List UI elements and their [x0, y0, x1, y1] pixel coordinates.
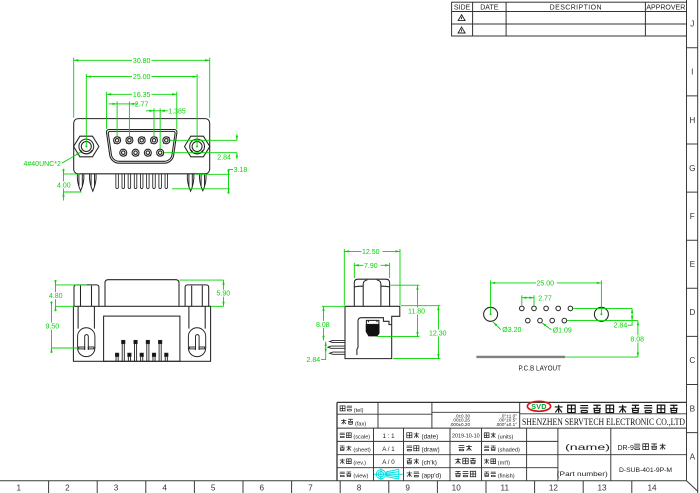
label 单位: [484, 433, 489, 438]
svg-text:30.80: 30.80: [133, 58, 151, 65]
svg-text:14: 14: [647, 484, 657, 493]
mounting hole right: [594, 307, 608, 321]
svg-text:J: J: [690, 20, 694, 29]
side view body with flange step: [345, 306, 400, 358]
svg-text:C: C: [689, 356, 695, 365]
revision triangle 1: [458, 15, 465, 33]
svg-text:APPROVER: APPROVER: [646, 4, 685, 11]
dim 25.00 (pcb): [490, 280, 492, 314]
green dots at nut centers: [85, 146, 198, 148]
dim 2.84 (pcb): [573, 307, 632, 309]
svg-text:H: H: [689, 116, 695, 125]
dim 2.84 (side): [325, 342, 327, 354]
svg-text:1 : 1: 1 : 1: [382, 433, 395, 440]
svg-text:P.C.B LAYOUT: P.C.B LAYOUT: [519, 364, 562, 373]
label 审核: [407, 459, 412, 464]
svg-text:4.80: 4.80: [49, 293, 63, 300]
svg-text:SVD: SVD: [531, 402, 546, 411]
svg-text:10: 10: [452, 484, 462, 493]
svg-text:B: B: [690, 404, 696, 413]
svg-text:4.00: 4.00: [57, 182, 71, 189]
bottom inner border line: [0, 480, 687, 482]
bottom zone numbers: [17, 484, 657, 493]
socket contacts top row (pins 1-5): [114, 137, 170, 144]
dim 5.90: [180, 279, 224, 281]
svg-text:7: 7: [308, 484, 313, 493]
mounting hole left: [484, 307, 498, 321]
third angle projection symbol (cyan): [374, 468, 403, 480]
svg-text:(date): (date): [422, 433, 439, 440]
label 处理: [484, 472, 489, 477]
part name DR-9 + 母座卧式: [618, 444, 666, 453]
svg-text:2.84: 2.84: [614, 322, 628, 329]
(name) and part number: [557, 442, 672, 478]
dim 2.77 (pcb): [521, 295, 523, 306]
right outer border line: [697, 0, 699, 493]
dim text 12.50: [362, 248, 383, 256]
svg-text:(units): (units): [498, 435, 514, 441]
svg-text:(Part number): (Part number): [557, 471, 608, 478]
revision triangle 2: [458, 27, 465, 33]
pin holes bottom row: [526, 318, 531, 323]
label 比例: [340, 433, 345, 438]
dim text 4.80: [48, 292, 65, 300]
svg-text:6: 6: [260, 484, 265, 493]
svg-text:SIDE: SIDE: [454, 4, 471, 11]
PCB layout dimensions: [491, 280, 638, 357]
svg-text:3.18: 3.18: [234, 167, 248, 174]
svg-text:E: E: [690, 260, 696, 269]
svg-text:2.84: 2.84: [307, 357, 321, 364]
svg-text:(fax): (fax): [355, 421, 366, 427]
title block texts: [340, 406, 496, 477]
PCB edge thick line: [476, 356, 565, 358]
dim 12.30: [401, 305, 440, 307]
label 传真 (fax): [341, 419, 346, 424]
label 页次: [340, 446, 345, 451]
label 版次: [340, 459, 345, 464]
svg-text:A: A: [690, 452, 696, 461]
svg-text:(finish): (finish): [498, 474, 515, 480]
svg-text:12.30: 12.30: [429, 331, 447, 338]
front view body outline: [74, 119, 210, 174]
thread callout leader 4#40UNC*2: [62, 152, 81, 163]
svg-text:16.35: 16.35: [133, 92, 151, 99]
svg-text:I: I: [691, 68, 693, 77]
contact notch dots top row: [114, 137, 170, 144]
svg-text:SHENZHEN SERVTECH ELECTRONIC C: SHENZHEN SERVTECH ELECTRONIC CO.,LTD: [522, 417, 685, 427]
dim 1.385: [153, 108, 155, 136]
svg-text:5.90: 5.90: [216, 291, 230, 298]
socket contacts bottom row (pins 6-9): [120, 149, 164, 156]
label 核准: [407, 471, 412, 477]
top view D-shell bulge: [105, 280, 179, 307]
front view dimension texts: [24, 57, 248, 190]
svg-text:F: F: [690, 212, 695, 221]
title block values: [382, 433, 479, 466]
label 电话 (tel): [340, 406, 345, 411]
name 刘建国: [455, 458, 461, 464]
svg-text:DR-9: DR-9: [618, 445, 634, 452]
label 日期: [407, 433, 412, 438]
dim 8.08 (pcb): [637, 321, 639, 358]
row lines top section: [337, 412, 687, 414]
svg-text:A / 0: A / 0: [382, 459, 395, 466]
dim text 8.08 (pcb): [630, 336, 647, 344]
svg-text:11.80: 11.80: [408, 309, 425, 316]
top view dimensions: [52, 280, 224, 353]
column lines top section: [378, 402, 520, 428]
left hex nut 4#40UNC: [74, 136, 99, 157]
svg-text:D: D: [689, 308, 695, 317]
bottom zone tick marks: [49, 481, 632, 493]
nine solder tail pins below body: [116, 174, 168, 189]
dim 30.80: [73, 58, 75, 118]
dim 8.08 (side): [322, 305, 345, 307]
leader dia 1.09: [542, 323, 551, 330]
left board-lock clip: [78, 328, 95, 357]
dim 4.00: [64, 173, 80, 175]
svg-text:DATE: DATE: [480, 4, 498, 11]
label 视图: [340, 472, 345, 477]
dim 9.50: [51, 306, 53, 348]
svg-text:(scale): (scale): [353, 435, 370, 441]
rear pin row (4 pins, squares + long tails): [122, 340, 162, 361]
right screw post: [185, 285, 209, 306]
svg-text:2019-10-10: 2019-10-10: [452, 434, 480, 440]
dim text 25.00: [132, 73, 152, 81]
svg-text:Ø3.20: Ø3.20: [502, 327, 521, 334]
dim 16.35: [106, 92, 108, 129]
svg-text:2.77: 2.77: [135, 101, 149, 108]
right zone tick marks: [687, 48, 698, 433]
svg-text:25.00: 25.00: [133, 74, 151, 81]
svg-text:9: 9: [405, 484, 410, 493]
svg-text:7.90: 7.90: [364, 263, 378, 270]
svg-text:(rev.): (rev.): [353, 461, 366, 467]
label 绘图: [407, 446, 413, 451]
company name Chinese 深圳市实维得电子有限公司: [555, 405, 678, 413]
front view D-shell inner: [108, 131, 175, 161]
bracket prong legs (right pair): [187, 174, 194, 191]
hex jack screw cap: [354, 279, 389, 306]
svg-text:13: 13: [597, 484, 607, 493]
side view dimensions: [321, 249, 440, 360]
svg-text:2.77: 2.77: [538, 295, 552, 302]
right zone letters: [689, 20, 695, 462]
svg-text:11: 11: [501, 484, 510, 493]
right hex nut 4#40UNC: [185, 136, 210, 157]
label 材料: [484, 459, 489, 464]
svg-text:DESCRIPTION: DESCRIPTION: [550, 4, 602, 11]
dim text 16.35: [132, 91, 152, 99]
left post drill lines: [78, 306, 94, 328]
bottom-right corner diagonal: [687, 481, 699, 492]
svg-text:1.385: 1.385: [168, 108, 186, 115]
dim text 9.50: [44, 323, 61, 331]
svg-text:(mt'l): (mt'l): [498, 461, 510, 467]
dim 3.18: [196, 173, 230, 175]
top view insert opening: [104, 316, 180, 361]
dim text 8.08: [316, 321, 333, 329]
svg-text:(view): (view): [353, 474, 368, 480]
svg-text:4: 4: [162, 484, 167, 493]
dim text 25.00 (pcb): [536, 279, 557, 287]
insulator inner contour: [358, 318, 392, 330]
svg-text:G: G: [689, 164, 695, 173]
svg-text:(tel): (tel): [354, 408, 364, 414]
dim 25.00: [85, 74, 87, 147]
svg-text:(ch'k): (ch'k): [422, 459, 437, 466]
column lines lower section: [374, 428, 611, 481]
svg-text:12.50: 12.50: [362, 249, 380, 256]
label 颜色: [484, 446, 489, 451]
dim text 7.90: [364, 262, 381, 270]
svg-text:12: 12: [549, 484, 559, 493]
svg-text:8: 8: [357, 484, 362, 493]
svg-text:9.50: 9.50: [45, 324, 59, 331]
dim text 30.80: [132, 57, 152, 65]
dim text 5.90: [215, 290, 232, 298]
svg-text:.000°±0.1°: .000°±0.1°: [495, 422, 517, 427]
svg-text:8.08: 8.08: [630, 337, 644, 344]
dim text 11.80: [408, 308, 428, 316]
dim 2.77: [116, 101, 118, 136]
dim text 4.00: [56, 181, 72, 189]
row lines lower section: [337, 441, 687, 467]
right post drill lines: [189, 306, 205, 328]
svg-text:(shaded): (shaded): [498, 448, 520, 454]
svg-text:4#40UNC*2: 4#40UNC*2: [24, 161, 61, 168]
bracket prong legs (left pair): [77, 174, 206, 191]
svg-text:(sheet): (sheet): [353, 448, 371, 454]
svg-text:3: 3: [114, 484, 119, 493]
dim 7.90: [353, 263, 355, 278]
svg-text:D-SUB-401-9P-M: D-SUB-401-9P-M: [619, 467, 672, 474]
left screw post: [74, 285, 99, 306]
dim 2.84 (front): [170, 139, 237, 141]
svg-text:1: 1: [17, 484, 22, 493]
svg-text:8.08: 8.08: [316, 322, 330, 329]
dim text 12.30: [429, 330, 450, 338]
SVD logo: [527, 401, 550, 411]
dim 4.80: [56, 284, 88, 286]
svg-text:25.00: 25.00: [537, 280, 555, 287]
dim 11.80: [391, 284, 420, 286]
latin parts of labels: [353, 408, 520, 480]
contact notch dots bottom row: [125, 155, 163, 156]
svg-text:2: 2: [65, 484, 70, 493]
pin holes top row: [520, 306, 525, 311]
right inner border line: [686, 0, 688, 481]
svg-text:Ø1.09: Ø1.09: [553, 327, 572, 334]
top view body: [73, 306, 210, 361]
name 黄富强: [455, 471, 461, 476]
svg-text:(app'd): (app'd): [422, 472, 442, 479]
svg-text:(draw): (draw): [422, 446, 440, 453]
contact (black): [366, 324, 380, 336]
svg-text:(name): (name): [565, 442, 610, 452]
front view D-shell outer: [106, 129, 176, 163]
three PCB pins (side view, pointing left): [328, 340, 345, 354]
name 蔡枚: [459, 446, 465, 451]
contact holder: [366, 320, 379, 324]
green dots at hole centers: [490, 313, 603, 315]
right board-lock clip: [188, 328, 205, 357]
front pin row (5 pins, squares + short tails): [116, 353, 168, 361]
tolerance table text: [450, 413, 518, 427]
svg-text:.000±0.20: .000±0.20: [450, 422, 471, 427]
dim 12.50: [343, 249, 345, 305]
svg-text:2.84: 2.84: [217, 154, 231, 161]
svg-text:5: 5: [211, 484, 216, 493]
leader dia 3.20: [493, 322, 501, 330]
svg-text:A / 1: A / 1: [382, 446, 395, 453]
